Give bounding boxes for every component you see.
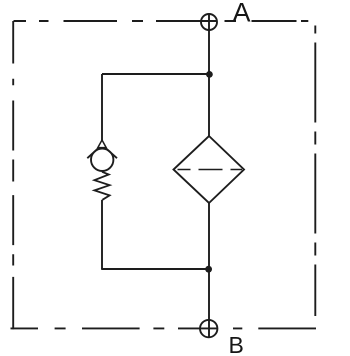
wire: top branch horizontal [102,73,209,75]
filter element diamond [174,136,245,203]
junction dot (bottom) [205,266,212,273]
check valve seat line (left) [87,147,99,158]
enclosure boundary (dash-dot) bottom edge [11,327,317,329]
wire: filter bottom through bottom junction to port B [208,203,210,337]
check valve spring [94,172,109,200]
check valve seat line (right) [105,147,117,158]
check valve seat triangle [98,140,106,148]
enclosure boundary (dash-dot) top edge [14,20,309,22]
svg-text:A: A [233,0,251,28]
port A circle [201,14,217,30]
port B circle [200,320,217,337]
filter dashed element line [178,169,243,171]
wire: port A down through top junction to filter top [208,15,210,137]
enclosure boundary (dash-dot) right edge [314,26,316,317]
check valve ball [91,149,113,171]
wire: left branch vertical down to check valve [101,74,103,141]
wire: below spring down to bottom branch [101,200,103,269]
enclosure boundary (dash-dot) left edge [12,21,14,329]
wire: bottom branch horizontal [101,268,208,270]
svg-text:B: B [229,332,244,356]
junction dot (top) [206,71,213,78]
